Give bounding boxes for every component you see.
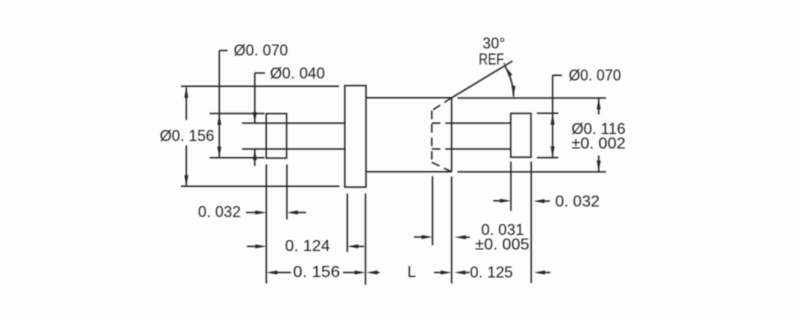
- svg-text:0. 125: 0. 125: [470, 264, 513, 281]
- svg-text:Ø0. 070: Ø0. 070: [234, 43, 289, 60]
- svg-text:0. 032: 0. 032: [198, 204, 241, 221]
- svg-text:Ø0. 156: Ø0. 156: [160, 128, 215, 145]
- svg-text:0. 156: 0. 156: [293, 264, 340, 281]
- svg-text:L: L: [407, 264, 416, 281]
- svg-text:30°: 30°: [483, 35, 506, 52]
- svg-text:REF.: REF.: [479, 52, 506, 69]
- svg-text:0. 032: 0. 032: [555, 193, 600, 210]
- svg-text:±0. 002: ±0. 002: [571, 136, 625, 153]
- svg-text:Ø0. 070: Ø0. 070: [569, 68, 622, 85]
- svg-text:0. 124: 0. 124: [285, 238, 330, 255]
- svg-text:Ø0. 040: Ø0. 040: [270, 65, 325, 82]
- svg-text:±0. 005: ±0. 005: [475, 237, 529, 254]
